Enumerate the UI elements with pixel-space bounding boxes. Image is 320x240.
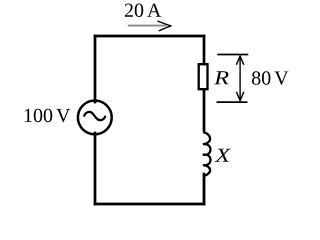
resistor R body — [199, 64, 208, 89]
wire right lower segment — [203, 174, 206, 204]
wire right upper segment — [203, 36, 206, 64]
label 20 A — [125, 4, 161, 18]
wire top rail — [95, 35, 204, 38]
label X — [214, 149, 231, 162]
wire right middle segment — [203, 90, 206, 131]
current arrow (20 A) — [128, 21, 171, 31]
label 100 V — [25, 109, 70, 123]
wire bottom rail — [95, 203, 204, 206]
voltage tick bottom — [217, 101, 248, 103]
wire left lower segment — [94, 133, 97, 204]
voltage tick top — [217, 54, 248, 56]
label 80 V — [252, 71, 288, 85]
source V1 sine symbol — [84, 112, 105, 120]
wire left upper segment — [94, 36, 97, 102]
inductor X coil — [203, 127, 211, 205]
label R — [214, 71, 229, 84]
source V1 circle — [78, 101, 112, 135]
voltage double arrow — [236, 56, 243, 101]
